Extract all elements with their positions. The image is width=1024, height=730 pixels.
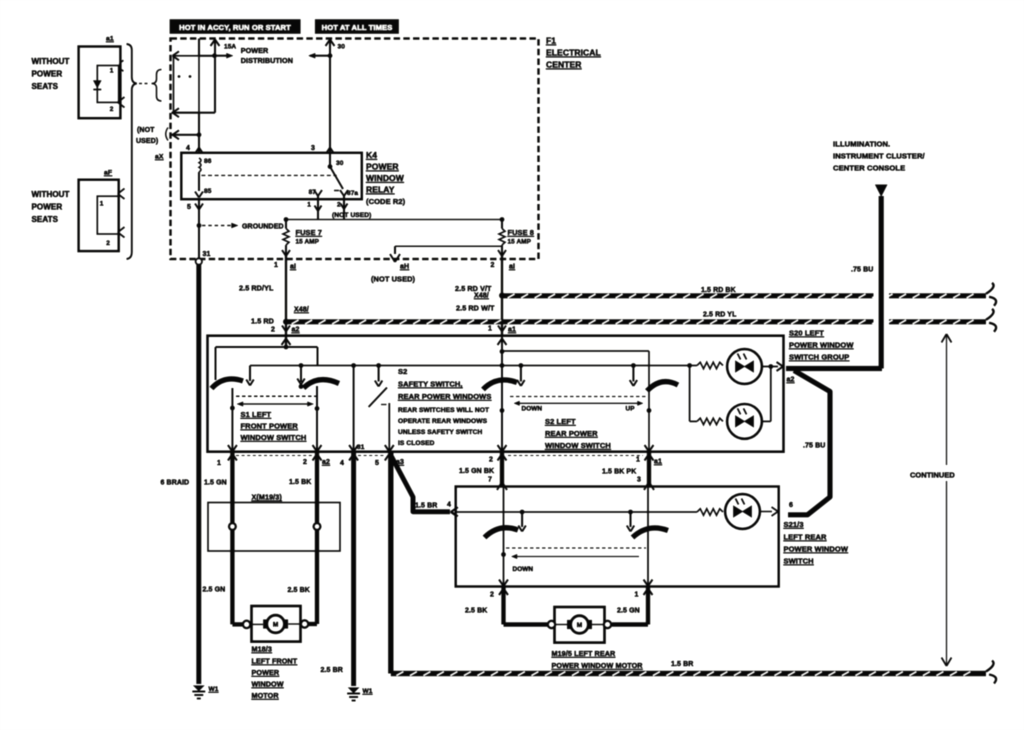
svg-text:UP: UP [626,406,636,413]
svg-text:OPERATE REAR WINDOWS: OPERATE REAR WINDOWS [398,418,488,425]
svg-text:4: 4 [447,502,451,509]
svg-text:2: 2 [490,592,494,599]
svg-text:87a: 87a [347,190,358,197]
svg-text:SWITCH GROUP: SWITCH GROUP [789,353,849,362]
svg-text:INSTRUMENT CLUSTER/: INSTRUMENT CLUSTER/ [833,152,926,161]
svg-text:1: 1 [217,460,221,467]
svg-text:X48/: X48/ [474,293,489,300]
svg-text:ELECTRICAL: ELECTRICAL [546,48,601,58]
svg-text:(NOT: (NOT [137,127,155,134]
svg-text:(CODE R2): (CODE R2) [366,197,406,206]
svg-text:POWER: POWER [366,162,399,172]
svg-text:1.5 BR: 1.5 BR [415,503,437,510]
svg-text:SEATS: SEATS [32,215,59,224]
svg-text:.75 BU: .75 BU [803,443,825,450]
svg-text:2.5 BK: 2.5 BK [288,587,310,594]
svg-text:15 AMP: 15 AMP [508,239,532,246]
svg-text:DOWN: DOWN [513,566,534,573]
svg-text:LEFT FRONT: LEFT FRONT [252,657,298,666]
svg-text:1.5 GN BK: 1.5 GN BK [459,468,494,475]
svg-text:1: 1 [488,326,492,333]
svg-text:WINDOW: WINDOW [366,173,405,183]
svg-text:POWER: POWER [252,668,280,677]
svg-text:K4: K4 [366,150,377,160]
svg-text:MOTOR: MOTOR [252,691,280,700]
svg-text:6 BRAID: 6 BRAID [161,480,190,487]
svg-text:POWER: POWER [32,70,63,79]
svg-text:aX: aX [155,154,164,161]
svg-text:REAR POWER WINDOWS: REAR POWER WINDOWS [398,392,491,401]
svg-text:HOT IN ACCY, RUN OR START: HOT IN ACCY, RUN OR START [179,23,291,32]
svg-text:ILLUMINATION.: ILLUMINATION. [833,140,890,149]
svg-text:85: 85 [204,188,212,195]
svg-text:2.5 RD YL: 2.5 RD YL [703,312,737,319]
svg-text:1: 1 [636,457,640,464]
svg-text:1.5 RD BK: 1.5 RD BK [701,287,736,294]
svg-text:2: 2 [110,106,114,113]
svg-text:4: 4 [340,460,344,467]
svg-text:2: 2 [303,459,307,466]
svg-text:5: 5 [375,460,379,467]
svg-text:SAFETY SWITCH,: SAFETY SWITCH, [398,380,463,389]
svg-text:S20 LEFT: S20 LEFT [789,329,824,338]
svg-text:1.5 RD: 1.5 RD [251,317,274,326]
svg-text:2: 2 [106,240,110,247]
svg-text:M: M [273,622,279,629]
svg-text:1: 1 [110,68,114,75]
svg-text:DISTRIBUTION: DISTRIBUTION [241,56,293,65]
svg-text:5: 5 [187,204,191,211]
svg-text:3: 3 [311,145,315,152]
svg-text:2.5 RD/YL: 2.5 RD/YL [239,284,274,293]
svg-text:86: 86 [204,158,212,165]
svg-text:1: 1 [274,262,278,269]
svg-text:3: 3 [637,477,641,484]
svg-text:a2: a2 [292,327,300,334]
svg-text:(NOT USED): (NOT USED) [332,212,371,219]
svg-text:X48/: X48/ [294,307,309,314]
svg-text:2: 2 [491,262,495,269]
svg-text:aH: aH [400,264,409,271]
svg-text:2.5 BK: 2.5 BK [465,608,487,615]
svg-text:aF: aF [104,170,112,177]
svg-text:30: 30 [338,44,346,51]
svg-text:2.5 BR: 2.5 BR [321,667,343,674]
svg-text:6: 6 [789,502,793,509]
svg-text:CENTER CONSOLE: CENTER CONSOLE [833,164,905,173]
svg-text:F1: F1 [546,36,556,46]
svg-text:31: 31 [203,251,211,258]
svg-text:1.5 BK PK: 1.5 BK PK [602,469,636,476]
svg-text:7: 7 [488,477,492,484]
svg-text:1.5 GN: 1.5 GN [204,480,227,487]
svg-text:LEFT REAR: LEFT REAR [784,533,827,542]
svg-text:REAR SWITCHES WILL NOT: REAR SWITCHES WILL NOT [398,407,489,414]
svg-text:a1: a1 [106,36,114,43]
svg-text:X(M19/3): X(M19/3) [252,493,283,502]
svg-text:15 AMP: 15 AMP [296,239,320,246]
svg-text:a1: a1 [508,327,516,334]
svg-text:2: 2 [271,327,275,334]
svg-text:1: 1 [100,201,104,208]
svg-text:GROUNDED: GROUNDED [242,224,284,231]
svg-text:POWER WINDOW MOTOR: POWER WINDOW MOTOR [552,661,644,670]
svg-text:15A: 15A [224,44,236,51]
svg-text:IS CLOSED: IS CLOSED [398,440,435,447]
svg-text:S21/3: S21/3 [784,520,804,529]
svg-text:USED): USED) [136,138,158,145]
svg-text:a2: a2 [322,459,330,466]
svg-text:W1: W1 [363,688,373,695]
svg-text:S2 LEFT: S2 LEFT [545,417,576,426]
svg-text:POWER: POWER [241,46,269,55]
svg-text:UNLESS SAFETY SWITCH: UNLESS SAFETY SWITCH [398,429,482,436]
svg-text:CENTER: CENTER [546,60,582,70]
svg-text:SEATS: SEATS [32,82,59,91]
svg-text:POWER: POWER [32,203,63,212]
svg-text:aI: aI [290,264,296,271]
svg-text:RELAY: RELAY [366,185,395,195]
svg-text:M18/3: M18/3 [252,645,272,654]
svg-text:DOWN: DOWN [522,406,543,413]
svg-text:HOT AT ALL TIMES: HOT AT ALL TIMES [322,23,393,32]
svg-text:1: 1 [307,202,311,209]
svg-text:REAR POWER: REAR POWER [545,429,598,438]
svg-text:WINDOW: WINDOW [252,680,284,689]
svg-text:W1: W1 [209,686,219,693]
svg-text:2.5 GN: 2.5 GN [617,608,640,615]
svg-text:WITHOUT: WITHOUT [32,190,70,199]
svg-text:1.5 BK: 1.5 BK [289,479,311,486]
svg-text:.75 BU: .75 BU [851,267,873,274]
svg-text:CONTINUED: CONTINUED [910,471,955,480]
svg-text:2.5 RD W/T: 2.5 RD W/T [456,304,495,313]
svg-text:S1 LEFT: S1 LEFT [241,410,272,419]
svg-text:WITHOUT: WITHOUT [32,57,70,66]
svg-text:1.5 BR: 1.5 BR [671,661,693,668]
svg-text:FRONT POWER: FRONT POWER [241,422,299,431]
svg-text:WINDOW SWITCH: WINDOW SWITCH [545,441,611,450]
svg-text:SWITCH: SWITCH [784,557,814,566]
svg-text:1: 1 [635,592,639,599]
svg-text:POWER WINDOW: POWER WINDOW [789,341,854,350]
svg-text:aI: aI [509,264,515,271]
svg-text:FUSE 8: FUSE 8 [508,228,534,237]
svg-text:4: 4 [186,145,190,152]
svg-text:a1: a1 [654,459,662,466]
svg-text:a2: a2 [787,377,795,384]
svg-text:2.5 GN: 2.5 GN [203,587,226,594]
svg-text:(NOT USED): (NOT USED) [371,275,416,284]
svg-text:M19/5 LEFT REAR: M19/5 LEFT REAR [552,649,617,658]
svg-text:M: M [577,622,583,629]
svg-text:2: 2 [489,457,493,464]
svg-text:30: 30 [336,160,344,167]
svg-text:WINDOW SWITCH: WINDOW SWITCH [241,433,307,442]
svg-text:FUSE 7: FUSE 7 [296,228,322,237]
svg-text:S2: S2 [398,367,407,376]
svg-text:POWER WINDOW: POWER WINDOW [784,545,849,554]
